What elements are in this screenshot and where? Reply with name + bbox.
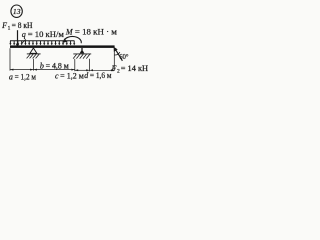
svg-text:13: 13 <box>13 7 21 16</box>
dimension line c <box>75 69 90 71</box>
support A ground line <box>27 53 41 55</box>
distributed load top line <box>10 40 75 42</box>
svg-text:a: a <box>9 72 13 81</box>
svg-text:= 1,2 м: = 1,2 м <box>15 72 36 81</box>
support B ground line <box>73 53 91 55</box>
svg-text:= 14 кН: = 14 кН <box>121 64 148 73</box>
roller support B <box>80 48 85 53</box>
problem number badge 13 <box>11 5 22 17</box>
extension line at beam left end <box>9 48 11 70</box>
svg-text:= 18 кН · м: = 18 кН · м <box>75 27 117 36</box>
label c = 1,2 m <box>55 72 84 81</box>
dimension line a <box>10 69 34 71</box>
background <box>0 0 150 96</box>
support B hatching <box>73 54 90 58</box>
svg-text:2: 2 <box>117 69 120 75</box>
pin support A triangle <box>30 48 37 53</box>
svg-text:1: 1 <box>8 26 11 32</box>
label F1 = 8 kN <box>1 21 33 32</box>
extension line right of support B <box>89 59 91 71</box>
label a = 1,2 m <box>9 72 36 81</box>
svg-text:= 1,2 м: = 1,2 м <box>60 72 84 81</box>
svg-text:60°: 60° <box>119 53 128 61</box>
svg-text:b: b <box>40 62 44 71</box>
distributed load arrows <box>9 41 75 45</box>
q leader line <box>22 39 26 43</box>
svg-text:= 1,6 м: = 1,6 м <box>90 71 112 80</box>
extension line at load end <box>74 59 76 71</box>
force F1 arrow <box>16 30 20 47</box>
moment M arc arrow <box>62 36 81 43</box>
svg-text:q: q <box>22 30 26 39</box>
label q = 10 kN/m <box>22 30 64 39</box>
dimension line d <box>90 69 115 71</box>
angle arc 60 deg <box>115 52 120 55</box>
label b = 4,8 m <box>40 62 69 71</box>
force F2 arrow <box>114 47 123 61</box>
svg-text:M: M <box>65 27 74 36</box>
extension line at support A <box>33 59 35 71</box>
label d = 1,6 m <box>84 71 111 80</box>
svg-text:= 8 кН: = 8 кН <box>12 21 33 30</box>
support A hatching <box>27 54 39 58</box>
svg-text:F: F <box>1 21 7 30</box>
label F2 = 14 kN <box>111 64 149 75</box>
extension line at beam right end <box>113 48 115 71</box>
svg-text:= 4,8 м: = 4,8 м <box>46 62 69 71</box>
dimension line b <box>34 69 75 71</box>
svg-text:c: c <box>55 72 59 81</box>
beam <box>10 45 115 48</box>
svg-text:= 10 кН/м: = 10 кН/м <box>28 30 64 39</box>
label M = 18 kN*m <box>65 27 117 36</box>
